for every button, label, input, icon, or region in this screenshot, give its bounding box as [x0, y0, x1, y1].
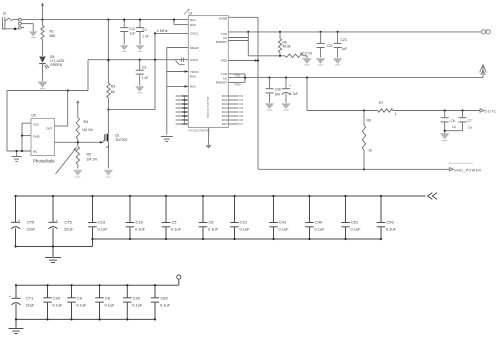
- wire: OUT line y110.5: [307, 109, 480, 111]
- svg-text:0.1uF: 0.1uF: [160, 303, 171, 308]
- wires: U5 left pins: [7, 123, 31, 152]
- resistor R3 68: [107, 20, 116, 111]
- svg-text:GND: GND: [33, 135, 41, 139]
- svg-text:C29: C29: [133, 296, 140, 301]
- svg-text:22uF: 22uF: [27, 226, 36, 231]
- svg-text:1M 1%: 1M 1%: [82, 128, 93, 132]
- capacitor C19 0.1uF: [88, 195, 108, 240]
- svg-text:C16: C16: [136, 219, 143, 224]
- svg-text:R8: R8: [367, 119, 371, 123]
- svg-text:0.1uF: 0.1uF: [98, 226, 109, 231]
- transistor Q1 2N7002: [103, 110, 127, 169]
- svg-text:RA5: RA5: [190, 23, 196, 27]
- svg-text:RXD/DT: RXD/DT: [216, 40, 227, 44]
- wire: photodiode out net (left loop): [7, 60, 88, 151]
- svg-text:U1: U1: [189, 12, 193, 16]
- wire: VSS net from U1 pin to ground rail: [228, 17, 258, 169]
- svg-text:PIC16C745/765: PIC16C745/765: [206, 96, 210, 118]
- wire: U1 VSS pin 2 to ground rail: [228, 59, 259, 62]
- svg-text:C19: C19: [98, 219, 105, 224]
- wire: ground rail to GND terminal: [258, 168, 450, 170]
- capacitor C99 0.1uF: [377, 195, 397, 240]
- capacitor CT5 22uF: [49, 195, 74, 248]
- svg-text:0.1uF: 0.1uF: [135, 226, 146, 231]
- svg-text:+: +: [18, 219, 20, 223]
- svg-text:RXD/DT: RXD/DT: [216, 81, 227, 85]
- svg-text:0.1uF: 0.1uF: [77, 303, 88, 308]
- svg-text:OSC1: OSC1: [190, 32, 199, 36]
- ground below C3: [135, 86, 144, 92]
- svg-text:MCLR: MCLR: [190, 46, 199, 50]
- ground at end of R10: [302, 56, 312, 65]
- svg-text:2N7002: 2N7002: [116, 138, 128, 142]
- svg-text:T0CKI: T0CKI: [190, 70, 199, 74]
- svg-text:C3: C3: [142, 65, 146, 69]
- svg-text:D2: D2: [240, 102, 244, 106]
- ground below jack: [29, 29, 38, 38]
- svg-text:49.9 1%: 49.9 1%: [300, 51, 312, 55]
- capacitor CT1 22uF: [9, 284, 35, 320]
- wire: drain net horizontal y109.6: [108, 109, 155, 111]
- wires: U1 TX/CK pins into step: [228, 32, 248, 56]
- svg-text:1u: 1u: [452, 125, 456, 129]
- svg-text:GREEN: GREEN: [50, 63, 63, 67]
- svg-text:4 MHz: 4 MHz: [157, 28, 168, 33]
- svg-text:C6: C6: [209, 219, 214, 224]
- svg-text:VCC: VCC: [33, 122, 40, 126]
- ground below C6: [440, 133, 450, 139]
- node: junction top bus at LED column: [41, 19, 43, 21]
- resistor R8 (load to ground): [362, 111, 372, 170]
- wire: top bus step to U1 pin 2: [173, 19, 188, 25]
- capacitor C23 1uF on net A: [334, 32, 348, 58]
- svg-text:C20: C20: [53, 296, 61, 301]
- capacitor C5 0.1uF: [162, 195, 182, 240]
- ground below C36: [265, 103, 275, 109]
- resistor R7 (series in OUT line): [378, 101, 397, 116]
- wire: OSC1 net to U1: [154, 32, 188, 34]
- svg-text:1u: 1u: [468, 126, 472, 130]
- ground at bottom of resonator/MCLR column: [161, 137, 173, 142]
- svg-text:1 uF: 1 uF: [142, 76, 149, 80]
- svg-text:0.1uF: 0.1uF: [208, 226, 219, 231]
- capacitor C36 33pF on net C: [266, 78, 282, 103]
- connector: up-arrow terminal top right: [480, 65, 487, 78]
- svg-text:0.1uF: 0.1uF: [279, 226, 290, 231]
- capacitor C8 0.1uF: [95, 284, 115, 320]
- capacitor C20 0.1uF: [43, 284, 63, 320]
- svg-text:0.1uF: 0.1uF: [315, 226, 326, 231]
- resistor R5 1M (lower): [76, 142, 97, 168]
- svg-text:0.1uF: 0.1uF: [240, 226, 251, 231]
- svg-text:OSC2: OSC2: [190, 58, 199, 62]
- svg-text:C2: C2: [143, 28, 147, 32]
- wire: OSC2 / middle net to U1: [88, 58, 188, 65]
- potentiometer R4 1M (upper): [76, 101, 93, 143]
- capacitor CT6 22uF: [11, 195, 36, 248]
- wire: U1 bottom pin to ground arrow: [206, 128, 212, 149]
- ground below C12: [120, 45, 129, 50]
- svg-text:49.9k: 49.9k: [283, 45, 291, 49]
- svg-text:1k: 1k: [369, 149, 373, 153]
- svg-text:C5: C5: [172, 219, 177, 224]
- wire: MCLR loop from U1 down left side: [167, 48, 189, 135]
- capacitor C12 0.1uF: [120, 19, 135, 45]
- svg-text:0.1uF: 0.1uF: [171, 226, 182, 231]
- svg-text:1: 1: [395, 112, 397, 116]
- ground below LED D8: [38, 82, 48, 88]
- capacitor C16 0.1uF: [126, 195, 146, 240]
- wire: gate net y142.3: [54, 141, 103, 144]
- svg-text:0.1uF: 0.1uF: [351, 226, 362, 231]
- svg-text:SM: SM: [275, 93, 280, 97]
- svg-text:C61: C61: [351, 219, 358, 224]
- ground tap on photodiode net: [12, 150, 22, 162]
- svg-text:C40: C40: [315, 219, 323, 224]
- svg-text:PIC16C745/765: PIC16C745/765: [189, 129, 211, 133]
- svg-text:R3: R3: [111, 84, 115, 88]
- wire: net C y77.6 from U1 to right arrow terminal: [228, 74, 483, 87]
- svg-text:C22: C22: [327, 44, 333, 48]
- capacitor C41 0.1uF: [269, 195, 289, 240]
- svg-text:0.1uF: 0.1uF: [132, 303, 143, 308]
- svg-text:C7: C7: [468, 119, 472, 123]
- svg-text:C9: C9: [77, 296, 82, 301]
- svg-text:+: +: [56, 219, 58, 223]
- svg-text:D3: D3: [240, 106, 244, 110]
- capacitor C3 1uF on OSC2 net: [136, 60, 149, 86]
- capacitor C22 on net A: [317, 32, 333, 58]
- svg-text:RXD: RXD: [235, 82, 241, 86]
- svg-text:D0: D0: [240, 94, 244, 98]
- svg-text:TXD: TXD: [235, 74, 241, 78]
- svg-text:C89: C89: [161, 296, 168, 301]
- svg-text:U5: U5: [32, 113, 36, 117]
- svg-text:Photodiode: Photodiode: [33, 159, 55, 164]
- svg-text:RC7: RC7: [222, 122, 228, 126]
- svg-text:C23: C23: [341, 38, 347, 42]
- power jack J2: [2, 12, 33, 31]
- wire: bottom bank supply bus: [16, 279, 179, 285]
- ground of bypass bank: [45, 245, 61, 262]
- capacitor C40 0.1uF: [305, 195, 325, 240]
- connector: GND terminal: [448, 163, 481, 172]
- svg-text:Q1: Q1: [115, 133, 120, 137]
- wire: net A (VUSB) y31.9: [228, 31, 481, 33]
- svg-text:1M 1%: 1M 1%: [87, 158, 98, 162]
- svg-text:VSS: VSS: [221, 58, 227, 62]
- svg-text:0.1uF: 0.1uF: [386, 226, 397, 231]
- svg-text:D7: D7: [240, 122, 244, 126]
- svg-text:.1uF: .1uF: [129, 31, 136, 35]
- svg-text:D5: D5: [240, 114, 244, 118]
- capacitor C2 1uF: [136, 19, 149, 45]
- ground below C22: [316, 58, 326, 64]
- wires: U1 right port pins RC0-RC7: [222, 94, 244, 126]
- ground below C23: [333, 58, 343, 64]
- svg-text:RA0: RA0: [190, 75, 196, 79]
- connector: left double chevron at bus end: [428, 193, 437, 200]
- svg-text:OUT: OUT: [46, 126, 53, 130]
- svg-text:D6: D6: [240, 118, 244, 122]
- capacitor C89 0.1uF: [151, 284, 171, 320]
- svg-text:CT6: CT6: [27, 219, 34, 224]
- svg-text:+: +: [289, 84, 291, 88]
- capacitor C61 0.1uF: [341, 195, 361, 240]
- connector: OUT terminal: [480, 109, 497, 114]
- svg-text:C12: C12: [129, 27, 135, 31]
- ground of bottom bank: [9, 319, 24, 333]
- wire: vertical from OSC1 down to transistor drain net: [154, 33, 156, 109]
- svg-text:0.1uF: 0.1uF: [53, 303, 64, 308]
- wires: U1 left port pins RB0-RB7: [176, 94, 189, 126]
- wire: top VCC bus: [12, 19, 188, 21]
- node: top bus junction at R3 column: [107, 19, 109, 21]
- svg-text:22uF: 22uF: [64, 226, 73, 231]
- svg-text:R7: R7: [379, 101, 383, 105]
- svg-text:CT5: CT5: [65, 219, 72, 224]
- svg-text:4.7uF: 4.7uF: [290, 92, 298, 96]
- svg-text:22uF: 22uF: [26, 303, 35, 308]
- capacitor C29 0.1uF: [123, 284, 143, 320]
- svg-text:68: 68: [111, 90, 115, 94]
- svg-text:RA1: RA1: [190, 85, 196, 89]
- svg-text:D1: D1: [240, 98, 244, 102]
- svg-text:680: 680: [50, 34, 56, 38]
- svg-text:1 uF: 1 uF: [142, 35, 149, 39]
- wire: C6/C7 bottoms tied, to ground: [444, 130, 463, 134]
- wiper arrow of potentiometer: [56, 147, 77, 174]
- wire: photodiode OUT pin riser: [54, 91, 67, 127]
- svg-text:C36: C36: [275, 88, 281, 92]
- VCC power arrow (top left): [41, 3, 45, 20]
- svg-text:GND_POWER: GND_POWER: [454, 169, 481, 173]
- connector: top right terminal circles: [482, 30, 491, 34]
- ground below C2: [136, 45, 145, 50]
- resistor R10 49.9 (horizontal): [248, 51, 312, 57]
- wire: branch from net C down to OUT line: [306, 78, 308, 111]
- resistor R1 680: [41, 20, 56, 56]
- ground below Q1: [104, 170, 114, 176]
- svg-text:J2: J2: [3, 12, 7, 16]
- capacitor C6 0.1uF: [199, 195, 219, 240]
- svg-text:R4: R4: [84, 120, 89, 124]
- svg-text:C99: C99: [387, 219, 394, 224]
- photodiode module U5: [31, 113, 55, 163]
- svg-text:R5: R5: [87, 152, 91, 156]
- wire: bottom bank ground bus: [16, 318, 155, 320]
- capacitor C6 at OUT: [441, 111, 456, 131]
- svg-text:C41: C41: [279, 219, 286, 224]
- capacitor C35 4.7uF on net C: [282, 78, 298, 103]
- ground below C35: [281, 103, 291, 109]
- svg-text:D4: D4: [240, 110, 244, 114]
- wire: VCC bus of bypass bank: [16, 195, 426, 197]
- svg-text:C21: C21: [240, 219, 247, 224]
- capacitor C7 at OUT: [459, 111, 472, 131]
- svg-text:OUT1: OUT1: [485, 110, 497, 114]
- svg-text:1uF: 1uF: [342, 47, 348, 51]
- wire: ground return bus of bypass bank: [16, 239, 382, 247]
- svg-text:+: +: [9, 295, 11, 299]
- capacitor C21 0.1uF: [230, 195, 250, 240]
- capacitor C9 0.1uF: [67, 284, 87, 320]
- connector: open terminal circle: [177, 275, 181, 279]
- svg-text:C6: C6: [451, 119, 455, 123]
- svg-text:RA4: RA4: [190, 18, 196, 22]
- svg-text:0.1uF: 0.1uF: [105, 303, 116, 308]
- ground below R5: [73, 170, 83, 176]
- svg-text:C8: C8: [105, 296, 110, 301]
- svg-text:VUSB: VUSB: [219, 16, 227, 20]
- LED D8: [39, 55, 64, 81]
- resistor R9 49.9k (vertical): [278, 32, 291, 56]
- svg-text:CT1: CT1: [26, 296, 33, 301]
- op-amp U1 microcontroller PIC16C745: [184, 9, 228, 132]
